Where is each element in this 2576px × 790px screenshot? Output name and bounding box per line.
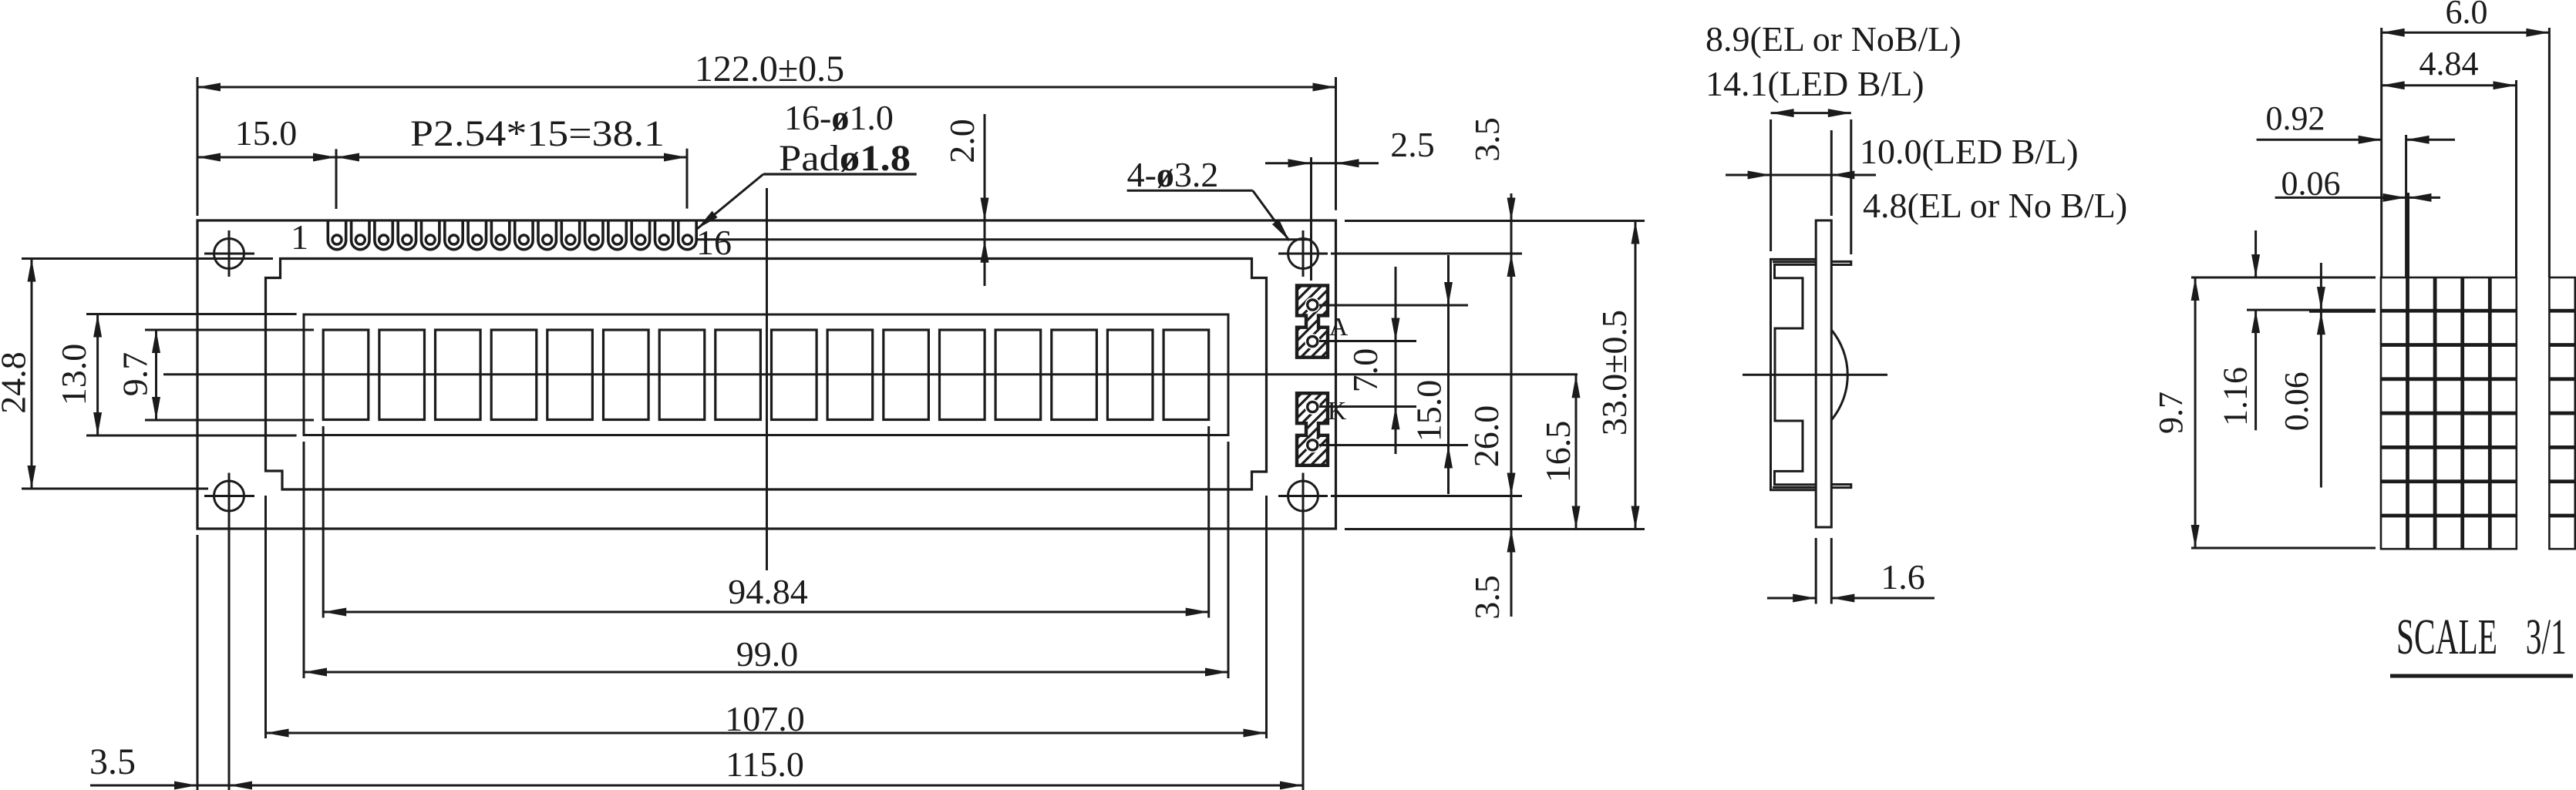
dimension 1.16 bbox=[2217, 230, 2376, 430]
leader from pad A2 bbox=[1319, 340, 1416, 342]
svg-text:9.7: 9.7 bbox=[116, 352, 155, 397]
svg-text:SCALE: SCALE bbox=[2396, 609, 2497, 665]
svg-text:P2.54*15=38.1: P2.54*15=38.1 bbox=[410, 113, 665, 154]
backlight cathode pads K bbox=[1295, 365, 1329, 491]
svg-text:6.0: 6.0 bbox=[2446, 0, 2488, 31]
dimension 1.6 bbox=[1767, 538, 1935, 604]
mounting hole bottom-right bbox=[1278, 473, 1328, 519]
svg-text:115.0: 115.0 bbox=[726, 745, 804, 784]
svg-text:4-ø3.2: 4-ø3.2 bbox=[1127, 155, 1219, 194]
scale note bbox=[2390, 609, 2573, 676]
horizontal centerline bbox=[163, 373, 1578, 375]
dimension 7.0 bbox=[1345, 267, 1400, 454]
dimension 10.0/4.8 bbox=[1726, 130, 2127, 225]
dimension 8.9/14.1 thickness bbox=[1706, 19, 1961, 254]
svg-text:9.7: 9.7 bbox=[2152, 392, 2190, 434]
dimension 9.7 bbox=[116, 330, 315, 420]
extension hole top right bbox=[1331, 253, 1522, 255]
svg-text:13.0: 13.0 bbox=[54, 344, 93, 406]
side view bezel profile bbox=[1771, 259, 1817, 489]
pad hole center extension line bbox=[695, 238, 1311, 240]
svg-text:A: A bbox=[1329, 313, 1349, 341]
dimension 2.5 bbox=[1265, 125, 1435, 281]
svg-text:7.0: 7.0 bbox=[1345, 348, 1385, 393]
svg-text:122.0±0.5: 122.0±0.5 bbox=[695, 49, 844, 89]
svg-text:3.5: 3.5 bbox=[1467, 575, 1507, 620]
side view bottom tab bbox=[1831, 485, 1851, 488]
extension PCB bottom right bbox=[1345, 528, 1645, 530]
pad number 1 label bbox=[291, 217, 308, 257]
svg-text:3.5: 3.5 bbox=[89, 741, 136, 782]
svg-text:8.9(EL or NoB/L): 8.9(EL or NoB/L) bbox=[1706, 19, 1961, 59]
dimension 2.0 bbox=[942, 114, 989, 286]
mounting hole bottom-left bbox=[204, 473, 254, 519]
vertical centerline bbox=[766, 188, 768, 570]
svg-text:15.0: 15.0 bbox=[235, 113, 298, 153]
svg-text:107.0: 107.0 bbox=[725, 699, 805, 738]
svg-text:0.06: 0.06 bbox=[2281, 165, 2341, 203]
svg-text:16-ø1.0: 16-ø1.0 bbox=[784, 98, 894, 137]
dimension P2.54*15=38.1 bbox=[336, 113, 687, 209]
dimension 3.5 top / 26.0 / 3.5 bottom line bbox=[1507, 193, 1516, 617]
dimension 9.7 detail bbox=[2152, 277, 2376, 548]
bezel outline bbox=[266, 259, 1267, 490]
svg-text:94.84: 94.84 bbox=[728, 572, 808, 611]
svg-text:15.0: 15.0 bbox=[1409, 380, 1449, 442]
svg-text:0.92: 0.92 bbox=[2266, 99, 2325, 137]
svg-text:4.84: 4.84 bbox=[2419, 45, 2479, 82]
side view PCB bbox=[1816, 220, 1831, 527]
leader from pad K2 bbox=[1319, 444, 1468, 446]
label A bbox=[1329, 313, 1349, 341]
dimension 15.0 right bbox=[1409, 255, 1453, 494]
svg-text:K: K bbox=[1328, 397, 1347, 425]
svg-text:10.0(LED B/L): 10.0(LED B/L) bbox=[1860, 132, 2079, 171]
svg-text:0.06: 0.06 bbox=[2278, 371, 2315, 431]
svg-text:33.0±0.5: 33.0±0.5 bbox=[1594, 310, 1634, 435]
callout 16-dia1.0 Pad dia1.8 bbox=[697, 98, 917, 229]
label K bbox=[1328, 397, 1347, 425]
pin pads 1-16 (16-dia1.0 pad dia1.8) bbox=[328, 222, 696, 250]
svg-text:1.16: 1.16 bbox=[2217, 367, 2254, 426]
svg-text:16: 16 bbox=[696, 223, 732, 262]
leader from pad K1 bbox=[1319, 405, 1416, 408]
PCB outline front view bbox=[197, 220, 1336, 529]
extension hole bottom right bbox=[1331, 495, 1522, 497]
svg-text:3.5: 3.5 bbox=[1467, 117, 1507, 162]
svg-text:1: 1 bbox=[291, 217, 308, 257]
display window opening bbox=[304, 314, 1228, 435]
mounting hole top-left bbox=[204, 230, 254, 277]
dimension 33.0±0.5 bbox=[1594, 221, 1640, 529]
dimension 0.06 row gap bbox=[2278, 263, 2376, 488]
dimension 99.0 bbox=[304, 442, 1228, 678]
dimension 0.06 column gap bbox=[2275, 165, 2440, 278]
mounting hole top-right bbox=[1278, 230, 1328, 277]
extension PCB top right bbox=[1345, 220, 1645, 222]
dimension 4.84 bbox=[2382, 45, 2517, 277]
dimension 94.84 bbox=[323, 426, 1209, 618]
pad number 16 label bbox=[696, 223, 732, 262]
callout 4-dia3.2 bbox=[1127, 155, 1289, 240]
svg-text:99.0: 99.0 bbox=[736, 634, 799, 674]
svg-text:1.6: 1.6 bbox=[1881, 557, 1925, 597]
dimension 115.0 and 3.5 bottom-left bbox=[89, 519, 1303, 790]
svg-text:26.0: 26.0 bbox=[1466, 405, 1506, 468]
leader from pad A1 bbox=[1319, 304, 1468, 307]
dimension 122.0±0.5 bbox=[197, 49, 1336, 216]
side view top tab bbox=[1831, 261, 1851, 264]
side view epoxy dome bbox=[1831, 330, 1847, 420]
svg-text:2.0: 2.0 bbox=[942, 119, 982, 163]
dimension 24.8 bbox=[0, 259, 273, 489]
text 3.5 bottom-right bbox=[1467, 575, 1507, 620]
svg-text:24.8: 24.8 bbox=[0, 351, 33, 414]
16 character cells bbox=[323, 330, 1209, 420]
svg-text:16.5: 16.5 bbox=[1538, 421, 1578, 483]
svg-text:4.8(EL or No B/L): 4.8(EL or No B/L) bbox=[1863, 186, 2127, 225]
next character first column bbox=[2549, 277, 2574, 549]
svg-text:2.5: 2.5 bbox=[1390, 125, 1435, 164]
svg-text:14.1(LED B/L): 14.1(LED B/L) bbox=[1706, 64, 1924, 103]
svg-text:3/1: 3/1 bbox=[2526, 609, 2567, 665]
dimension 13.0 bbox=[54, 314, 297, 436]
text 26.0 bbox=[1466, 405, 1506, 468]
dimension 16.5 bbox=[1538, 375, 1581, 529]
text 3.5 top-right bbox=[1467, 117, 1507, 162]
dimension 107.0 bbox=[266, 496, 1267, 738]
dimension 6.0 bbox=[2382, 0, 2550, 277]
svg-text:Padø1.8: Padø1.8 bbox=[779, 138, 911, 179]
dot matrix 5x8 grid bbox=[2381, 277, 2517, 549]
dimension 15.0 bbox=[197, 113, 336, 209]
backlight anode pads A bbox=[1295, 257, 1329, 383]
dimension 0.92 bbox=[2257, 99, 2455, 277]
side view centerline bbox=[1743, 374, 1887, 376]
